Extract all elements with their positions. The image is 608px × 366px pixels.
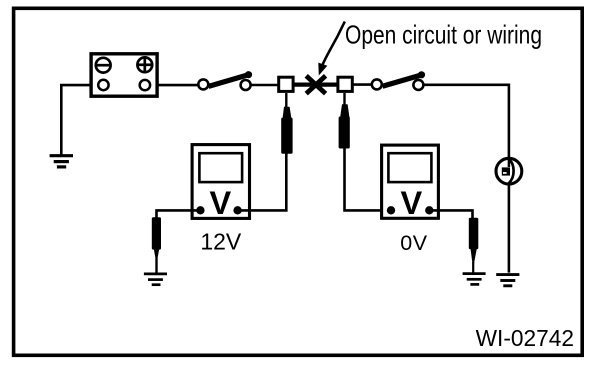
svg-text:Open circuit or wiring: Open circuit or wiring: [345, 20, 542, 50]
connector square right: [338, 77, 352, 91]
wire probe P3 down to M2 left terminal: [345, 148, 392, 210]
wire SW1 to left connector: [250, 84, 279, 87]
wire thick bus between connectors (broken circuit): [294, 82, 337, 86]
ground G3 (probe P4 ground): [463, 274, 486, 285]
voltmeter M1: [192, 145, 249, 221]
leader arrow to X: [318, 22, 345, 76]
wire M2 right terminal to probe P4: [430, 210, 473, 219]
svg-text:12V: 12V: [200, 229, 242, 255]
probe P1: [152, 217, 161, 272]
ground G2 (probe P1 ground): [144, 274, 167, 285]
wire right connector to SW2: [352, 83, 378, 86]
battery BAT: [91, 54, 157, 96]
battery positive terminal: [137, 57, 152, 72]
figure id WI-02742: [476, 325, 574, 351]
probe P2 (at left connector): [281, 93, 292, 154]
svg-text:V: V: [209, 185, 231, 221]
wire lamp to ground: [508, 184, 511, 273]
wire battery to left ground corner: [61, 85, 103, 155]
svg-text:0V: 0V: [400, 231, 427, 255]
probe P4: [469, 218, 479, 273]
wire SW2 to lamp: [422, 85, 509, 160]
open circuit X mark: [306, 76, 325, 94]
ground G1 (battery ground): [50, 156, 73, 167]
battery negative terminal: [96, 58, 111, 73]
connector square left: [279, 77, 293, 91]
wire M1 right terminal up to probe P2: [238, 152, 286, 210]
voltmeter M2: [382, 145, 439, 221]
probe P3 (at right connector): [339, 93, 350, 149]
battery post right: [140, 80, 150, 90]
battery post left: [98, 80, 108, 90]
ground G4 (lamp ground): [496, 275, 519, 286]
switch SW2: [372, 71, 425, 90]
label 0V: [400, 231, 427, 255]
svg-text:V: V: [401, 185, 423, 221]
wire battery right terminal to switch SW1: [146, 84, 199, 87]
label Open circuit or wiring: [345, 20, 542, 50]
lamp L1: [496, 158, 522, 184]
wire M1 left terminal to probe P1: [157, 210, 201, 218]
switch SW1: [198, 71, 252, 90]
svg-text:WI-02742: WI-02742: [476, 325, 574, 351]
label 12V: [200, 229, 242, 255]
